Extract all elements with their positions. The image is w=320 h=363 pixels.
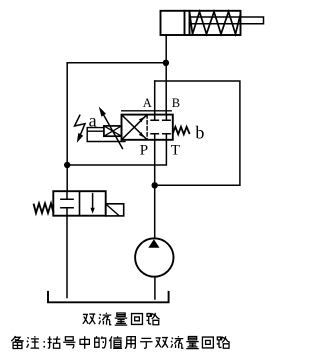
char 备	[11, 336, 23, 348]
valve V1 divider	[146, 115, 148, 140]
char 回	[132, 314, 143, 325]
char 路	[147, 313, 160, 325]
svg-text:a: a	[89, 110, 97, 130]
valve V2 divider	[79, 191, 81, 216]
valve V1 blocked port marks	[151, 115, 170, 140]
valve V2 spring left	[34, 203, 54, 213]
cylinder C1 spring	[190, 12, 241, 34]
cylinder C1 piston	[185, 11, 190, 35]
valve V2 actuator diagonal	[106, 204, 119, 215]
tank T1	[48, 292, 169, 303]
solenoid S1 push pin	[87, 128, 125, 142]
char 路	[217, 336, 230, 348]
solenoid S1 cross	[104, 126, 122, 136]
pump P1 triangle	[148, 239, 159, 248]
valve V2 actuator box	[106, 204, 124, 216]
node junction dot 1	[163, 60, 169, 66]
solenoid S1 proportional arrow	[104, 115, 123, 149]
svg-text:T: T	[171, 143, 180, 159]
char 流	[99, 313, 112, 325]
char 量	[186, 337, 198, 349]
char 括	[48, 336, 61, 348]
svg-text:B: B	[172, 96, 180, 110]
valve V2 flow arrow	[92, 194, 94, 211]
wire valve V2 to tank	[66, 216, 68, 298]
wire top frame horizontal	[67, 62, 166, 64]
wire P line valve to pump	[154, 140, 156, 239]
solenoid S1 box	[104, 126, 122, 136]
valve V1 crossed arrows	[123, 116, 147, 139]
cylinder C1 rod	[190, 17, 264, 24]
wire cylinder to node1	[165, 35, 167, 63]
char 注	[27, 336, 39, 348]
char 双	[83, 314, 95, 324]
svg-text:b: b	[195, 123, 204, 143]
wire pump to tank	[154, 277, 156, 299]
wire A line	[154, 81, 156, 115]
wire left frame vertical	[66, 63, 68, 191]
valve V2 body	[53, 191, 105, 216]
char 量	[115, 313, 127, 325]
electric lightning symbol	[75, 115, 86, 134]
char 用	[125, 337, 135, 349]
caption text 备注:括号中的值用于双流量回路	[11, 336, 230, 349]
wire B line	[165, 63, 167, 115]
char colon	[43, 341, 45, 347]
svg-text:A: A	[143, 96, 152, 110]
node junction dot 2	[64, 162, 70, 168]
char 的	[95, 336, 106, 348]
wire bypass rectangle right	[155, 81, 240, 185]
valve V2 blocked symbol	[61, 191, 73, 216]
pump P1 circle	[135, 238, 173, 276]
node junction dot 3	[152, 182, 158, 188]
char 号	[63, 337, 75, 348]
char 回	[202, 337, 213, 348]
valve V1 pre-line	[122, 110, 172, 112]
char 双	[155, 338, 167, 348]
char 流	[171, 336, 184, 348]
wire T line horizontal	[67, 140, 166, 165]
title text 双流量回路	[83, 313, 160, 325]
svg-text:P: P	[140, 143, 148, 159]
char 于	[140, 338, 152, 348]
char 值	[109, 336, 122, 348]
valve V1 spring right	[173, 127, 190, 135]
char 中	[80, 336, 89, 348]
valve V1 body	[122, 115, 173, 140]
cylinder C1 body	[161, 11, 241, 35]
